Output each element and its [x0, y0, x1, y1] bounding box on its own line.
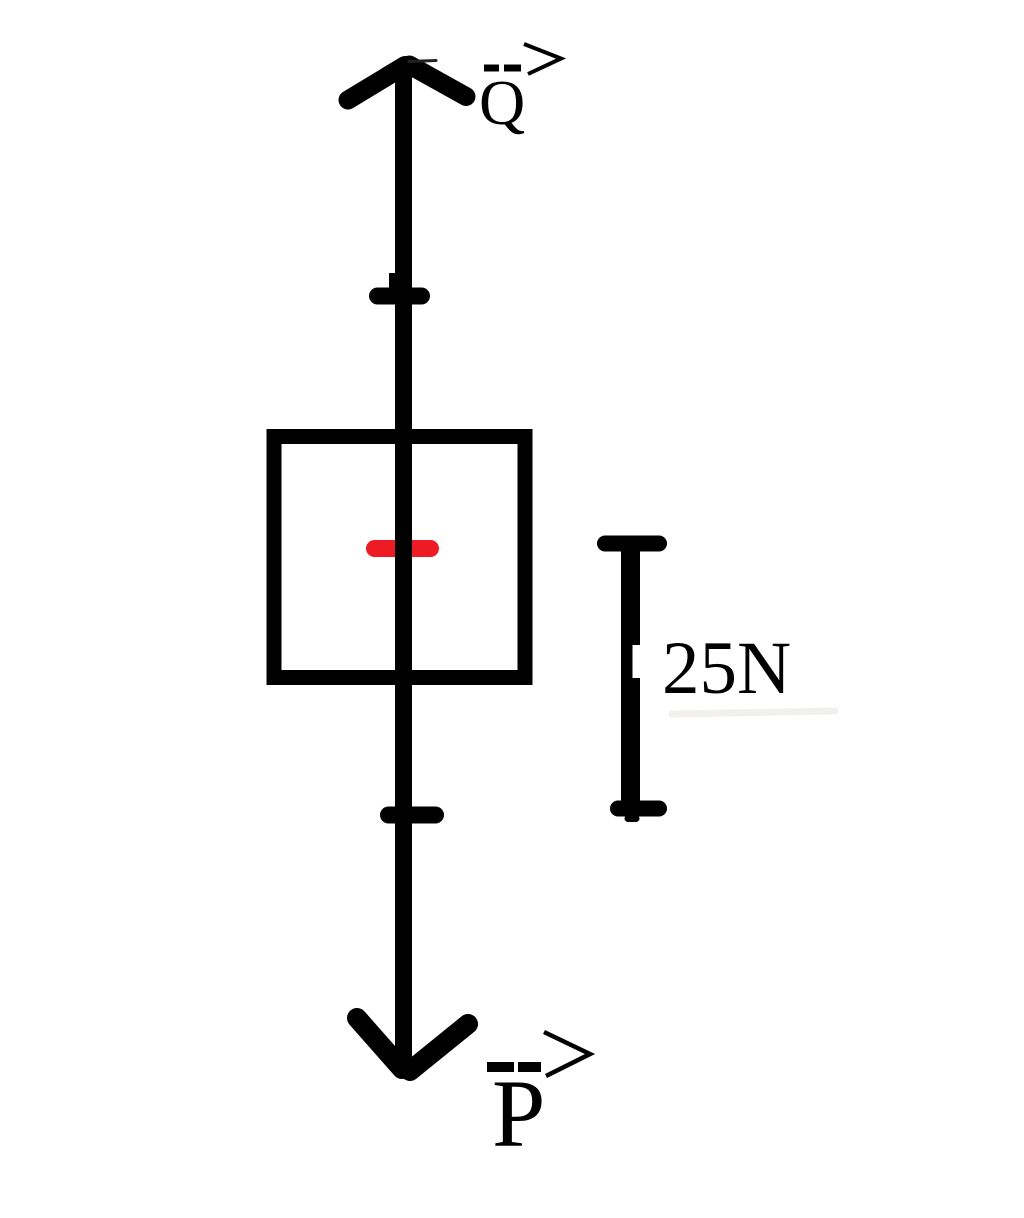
lower tick mark	[389, 807, 436, 824]
faint artifact smudge below 25N	[672, 711, 835, 714]
block (square box)	[274, 437, 525, 678]
down arrowhead (force P)	[357, 1018, 402, 1069]
red center dash on block	[375, 540, 431, 557]
svg-text:25N: 25N	[662, 627, 791, 710]
svg-text:P: P	[492, 1060, 545, 1167]
Q vector dashes	[484, 65, 499, 72]
upper tick mark	[378, 288, 422, 305]
scale bar bottom cap	[618, 801, 659, 817]
scale bar vertical	[621, 543, 640, 812]
white notch over scale bar	[633, 645, 643, 678]
P vector arrowhead	[544, 1032, 590, 1076]
vertical force line (shaft)	[395, 64, 412, 1066]
P vector dashes	[487, 1062, 514, 1072]
Q vector arrowhead	[524, 44, 561, 74]
shaft bump above upper tick	[389, 273, 397, 298]
scale bar top cap	[605, 536, 659, 552]
svg-text:Q: Q	[479, 67, 525, 138]
scale bar bottom nub	[628, 815, 636, 822]
up arrowhead (force Q)	[348, 66, 405, 101]
